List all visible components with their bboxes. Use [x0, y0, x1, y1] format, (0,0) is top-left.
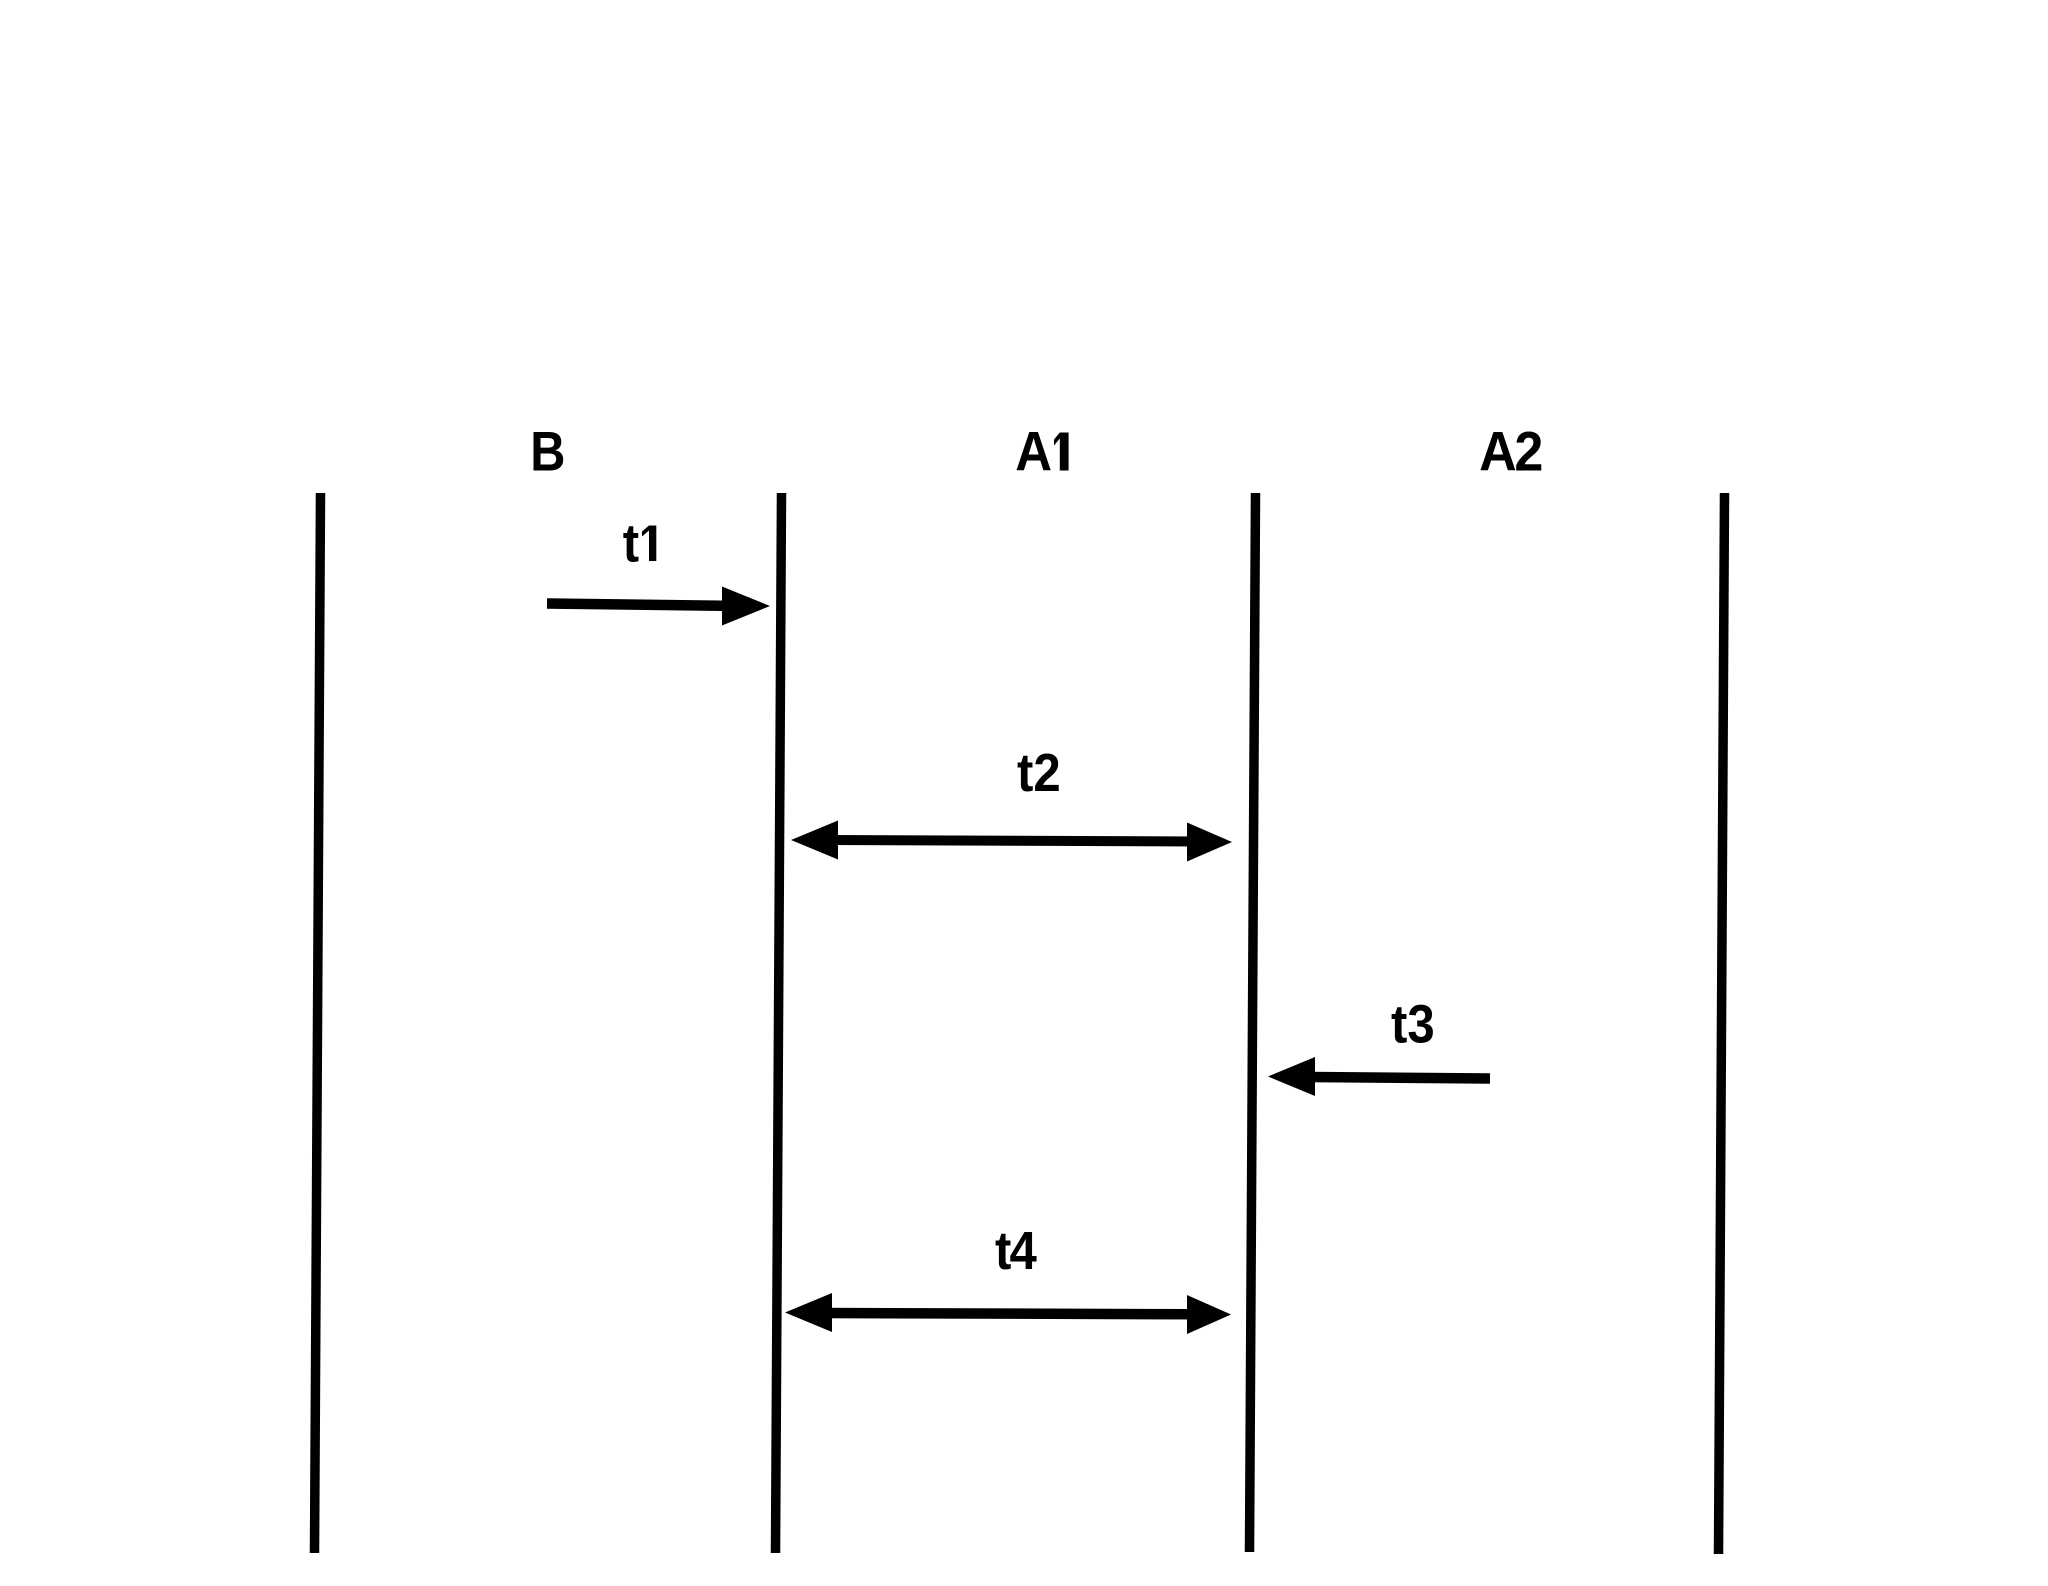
label A1	[1015, 421, 1068, 483]
svg-text:A: A	[1015, 421, 1052, 483]
lifeline B	[776, 493, 782, 1553]
svg-text:B: B	[530, 420, 565, 483]
svg-text:t3: t3	[1391, 993, 1435, 1054]
label t1	[623, 512, 657, 573]
arrow t4	[785, 1293, 1231, 1334]
lifeline left	[315, 493, 321, 1553]
svg-text:t4: t4	[995, 1220, 1037, 1281]
svg-text:t: t	[623, 512, 639, 573]
lifeline A1	[1250, 493, 1256, 1552]
arrow t1	[547, 587, 770, 626]
svg-text:t2: t2	[1017, 742, 1061, 803]
lifeline A2	[1719, 493, 1725, 1554]
arrow t3	[1268, 1057, 1490, 1096]
svg-text:A2: A2	[1479, 421, 1541, 483]
arrow t2	[791, 821, 1232, 862]
